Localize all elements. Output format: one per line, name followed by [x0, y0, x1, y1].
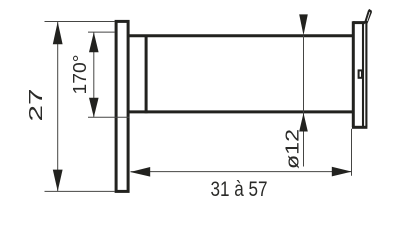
svg-text:27: 27: [26, 89, 46, 122]
dim 27 top extension line: [45, 21, 115, 23]
dim dia12 arrow down (above tube): [299, 14, 308, 35]
dim 27 bottom extension line: [45, 190, 115, 192]
eyepiece bottom edge: [352, 126, 367, 129]
shutter flap: [364, 9, 372, 24]
dim 27 line: [57, 22, 59, 191]
dim 31a57 arrow left: [130, 167, 150, 177]
svg-text:ø12: ø12: [283, 129, 303, 169]
dim 170 arrow down: [89, 98, 99, 117]
dim 27 arrow up: [53, 22, 63, 45]
barrel inner ring: [145, 35, 148, 114]
dim 170 bottom extension line: [88, 116, 130, 118]
dim 170 arrow up: [89, 32, 99, 52]
dim 170 line: [93, 32, 95, 117]
barrel tube bottom edge: [128, 110, 353, 113]
svg-text:31 à 57: 31 à 57: [211, 178, 268, 201]
shutter knob: [359, 70, 362, 77]
dim 31a57 right extension line: [351, 129, 353, 176]
dim dia12 arrow up (below tube): [299, 113, 308, 132]
flange plate: [116, 21, 128, 191]
barrel tube top edge: [128, 34, 353, 37]
eyepiece rim outer line: [362, 23, 364, 127]
eyepiece top edge: [353, 21, 365, 24]
dim 31a57 line: [131, 171, 352, 173]
dim 170 top extension line: [88, 31, 115, 33]
eyepiece left edge: [352, 21, 355, 127]
eyepiece rim inner line: [365, 23, 367, 127]
dim 31a57 arrow right: [332, 167, 352, 177]
dim dia12 line: [303, 36, 305, 167]
dim 27 arrow down: [53, 170, 63, 192]
shutter flap inner sliver: [367, 12, 370, 21]
svg-text:170°: 170°: [70, 55, 90, 95]
